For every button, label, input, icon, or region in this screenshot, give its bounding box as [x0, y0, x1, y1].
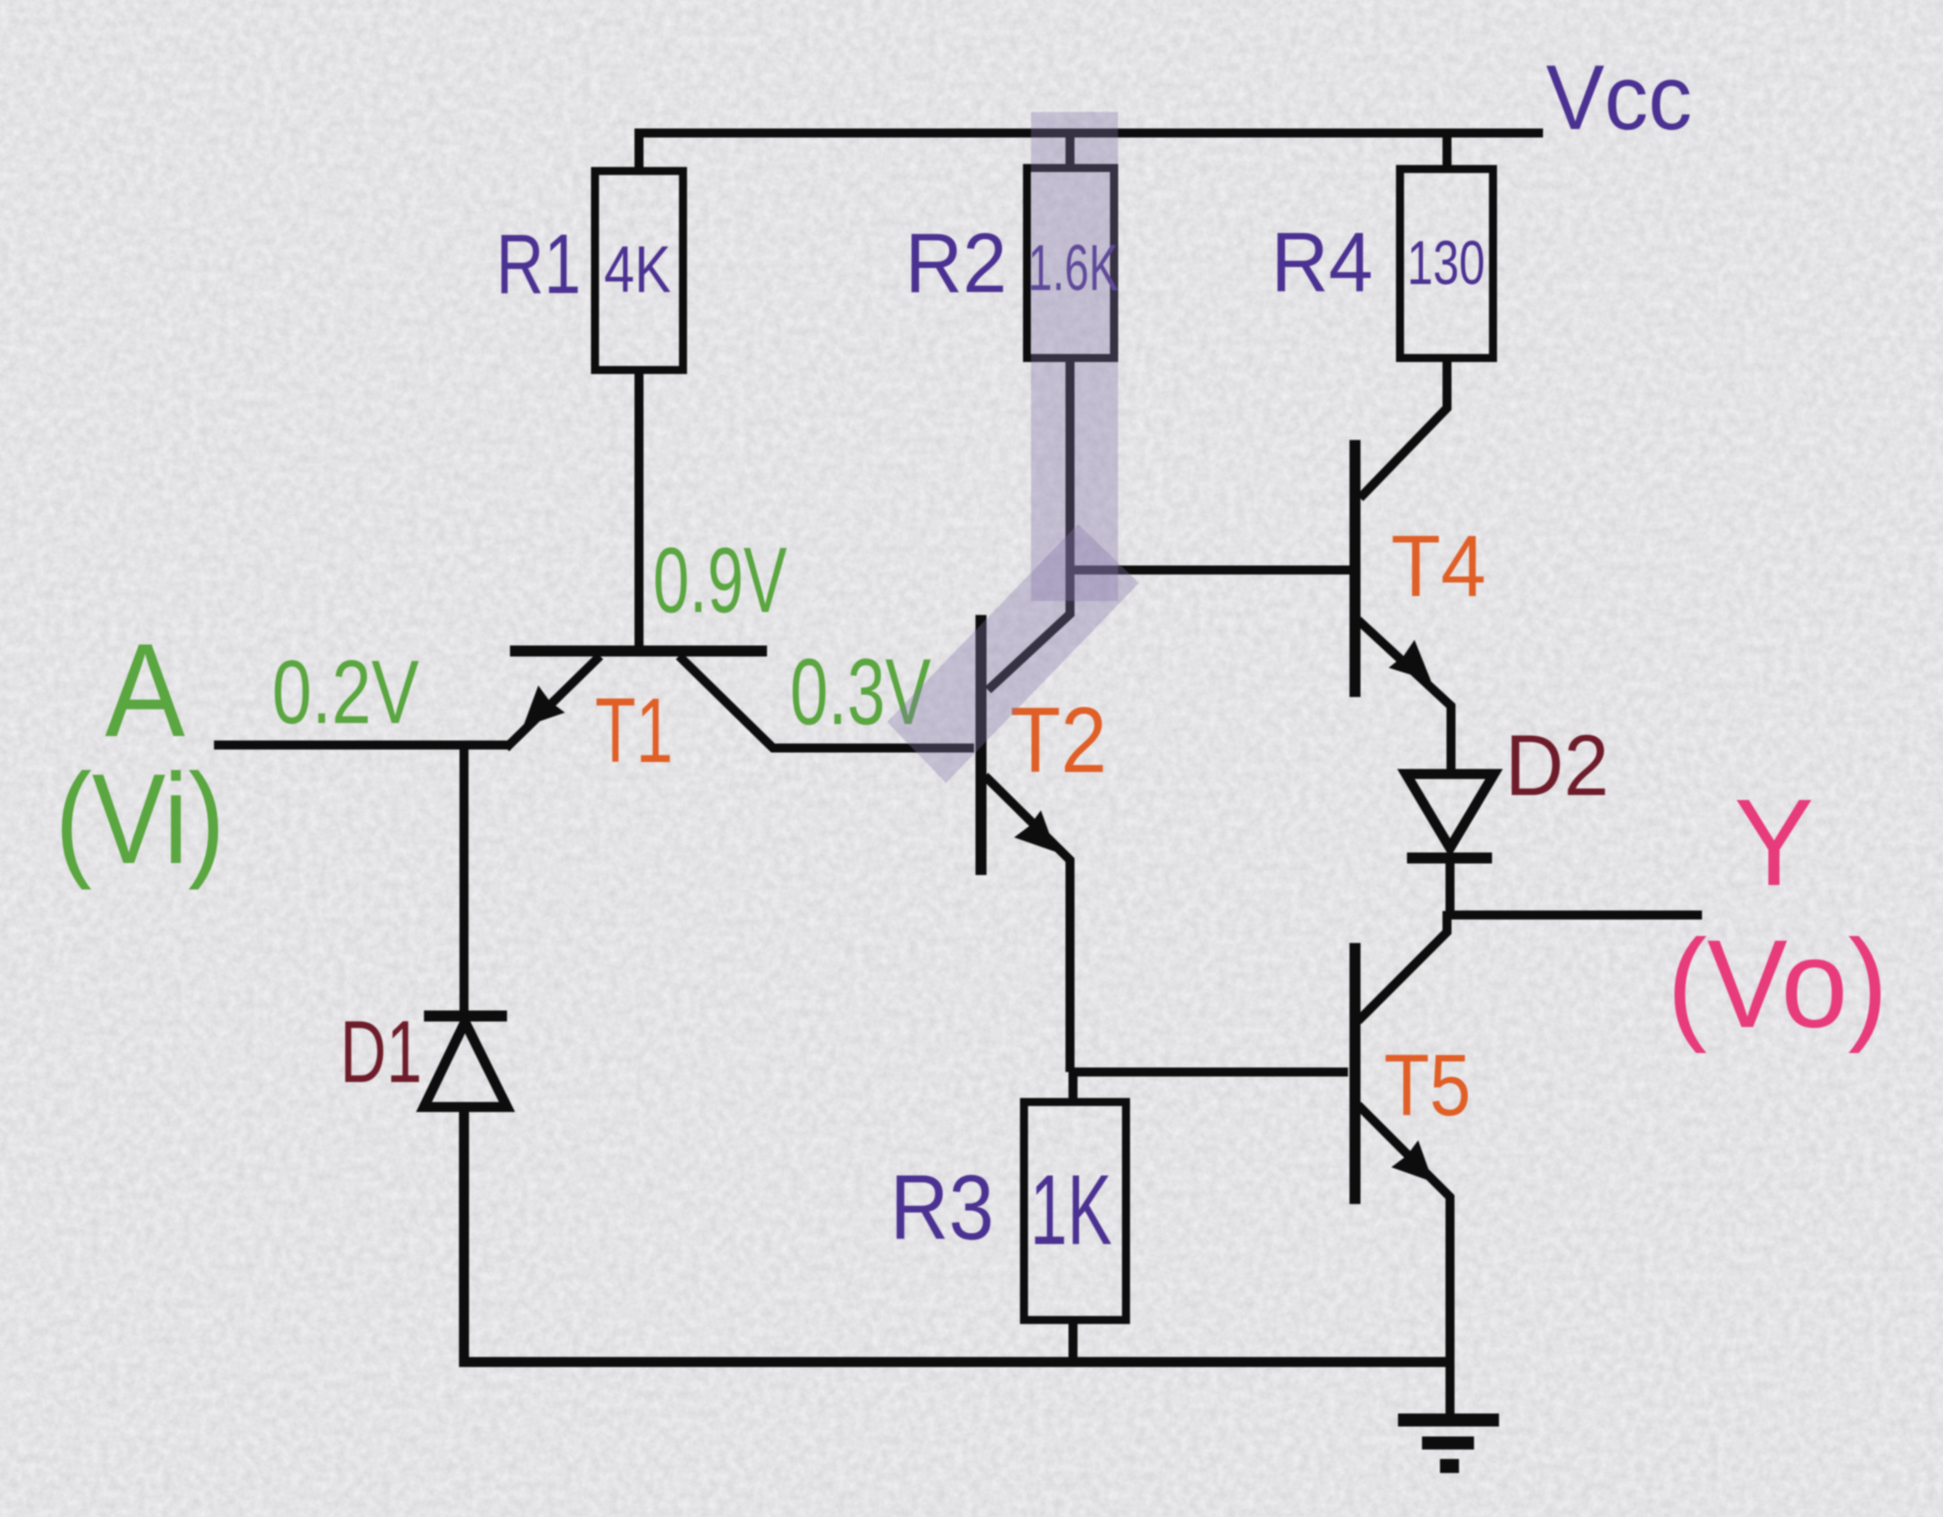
highlight vertical band over R2	[1031, 112, 1118, 601]
transistor T4 collector	[1360, 358, 1447, 498]
resistor R2	[1027, 168, 1114, 358]
wire R4 top stub	[1443, 133, 1452, 169]
svg-text:Vcc: Vcc	[1546, 47, 1692, 149]
wire D2 to Y node	[1446, 858, 1455, 915]
diode D1 cathode bar	[424, 1011, 507, 1022]
resistor R1	[595, 171, 683, 370]
highlight diagonal band over T2 collector	[887, 524, 1139, 783]
transistor T1 emitter	[506, 656, 600, 748]
svg-text:4K: 4K	[604, 232, 671, 306]
transistor T4 emitter	[1358, 620, 1451, 774]
resistor R4	[1400, 169, 1493, 358]
wire junction to T4 base	[1070, 566, 1352, 575]
svg-text:D1: D1	[340, 1002, 422, 1101]
diode D2 triangle	[1406, 774, 1494, 848]
svg-text:Y: Y	[1734, 775, 1814, 912]
svg-text:(Vi): (Vi)	[55, 748, 225, 891]
svg-text:R3: R3	[890, 1157, 994, 1259]
svg-text:T5: T5	[1384, 1037, 1471, 1134]
transistor T2 emitter	[985, 776, 1070, 1072]
wire R1 bottom to T1 base	[635, 370, 644, 649]
svg-text:(Vo): (Vo)	[1667, 915, 1888, 1054]
ground	[1446, 1362, 1455, 1414]
diode D2 cathode bar	[1407, 853, 1492, 864]
diode D1 triangle	[424, 1022, 507, 1107]
svg-text:R4: R4	[1271, 215, 1373, 309]
svg-text:130: 130	[1407, 229, 1485, 298]
wire Vcc rail	[639, 133, 1543, 171]
transistor T1 base bar	[510, 646, 767, 657]
svg-text:D2: D2	[1505, 718, 1609, 814]
wire T2 emitter to T5 base	[1070, 1068, 1348, 1077]
transistor T5 emitter	[1358, 1105, 1450, 1362]
svg-text:A: A	[105, 617, 185, 765]
transistor T1 collector	[679, 656, 974, 748]
wire D1 to bottom rail	[464, 1107, 1450, 1362]
wire output Y	[1447, 911, 1702, 920]
svg-text:T1: T1	[595, 680, 673, 782]
resistor R3	[1024, 1102, 1126, 1320]
svg-text:1K: 1K	[1030, 1154, 1112, 1265]
wire input to D1	[460, 745, 469, 1012]
transistor T2 base bar	[976, 615, 987, 875]
svg-text:T4: T4	[1391, 518, 1486, 615]
transistor T4 base bar	[1350, 440, 1361, 697]
transistor T5 base bar	[1350, 943, 1361, 1204]
svg-text:0.2V: 0.2V	[272, 643, 419, 743]
svg-text:R2: R2	[905, 216, 1007, 310]
svg-text:R1: R1	[496, 217, 581, 311]
svg-text:T2: T2	[1010, 688, 1107, 792]
wire R2 bottom / T2 collector	[988, 358, 1070, 690]
wire input A	[214, 741, 510, 750]
wire R2 top stub	[1066, 133, 1075, 168]
wire R3 top stub	[1069, 1072, 1078, 1102]
svg-text:0.9V: 0.9V	[653, 528, 787, 632]
transistor T5 collector	[1358, 911, 1447, 1021]
wire R3 bottom stub	[1069, 1320, 1078, 1362]
